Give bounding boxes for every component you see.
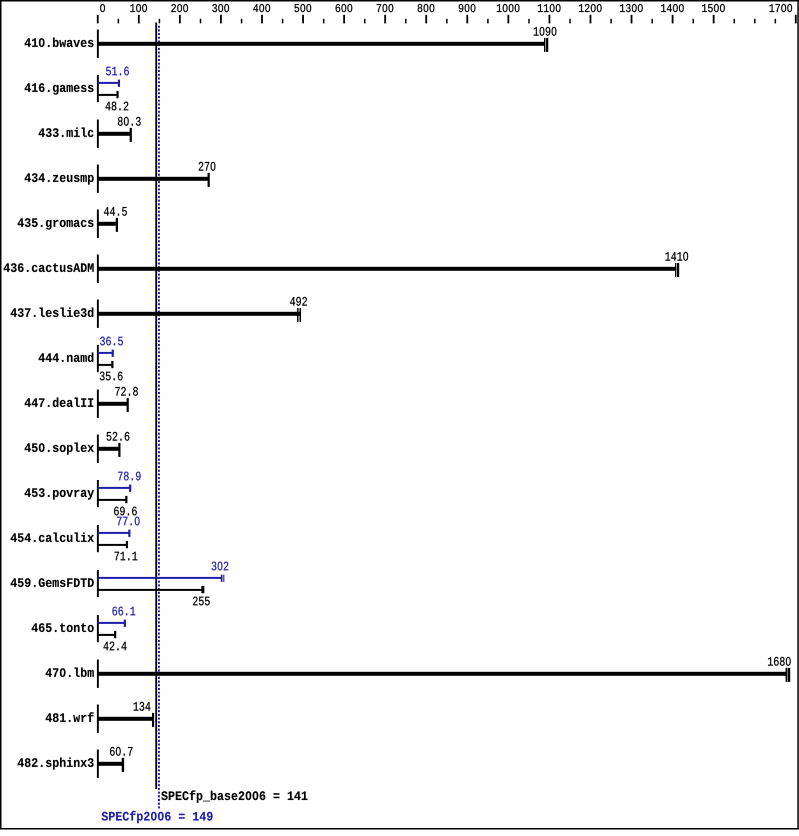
axis major tick 900 bbox=[466, 15, 468, 24]
axis minor tick 1350 bbox=[651, 19, 653, 24]
459.GemsFDTD peak run tick bbox=[223, 575, 224, 582]
benchmark label 437.leslie3d bbox=[11, 307, 94, 317]
border left bbox=[0, 0, 2, 830]
axis minor tick 1600 bbox=[754, 19, 756, 24]
416.gamess peak value 51.6 bbox=[106, 67, 129, 76]
454.calculix base end cap bbox=[126, 541, 128, 548]
axis minor tick 1650 bbox=[775, 19, 777, 24]
axis label 1700 bbox=[769, 4, 792, 12]
436.cactusADM axis baseline bbox=[97, 255, 99, 283]
axis label 1100 bbox=[538, 4, 561, 12]
axis label 1300 bbox=[620, 4, 643, 12]
row 410.bwaves bbox=[25, 37, 94, 47]
453.povray base value 69.6 bbox=[114, 507, 137, 516]
axis label 800 bbox=[418, 4, 435, 12]
axis minor tick 350 bbox=[241, 19, 243, 24]
453.povray base bar (69.6) bbox=[98, 499, 127, 501]
470.lbm run tick 1 bbox=[786, 668, 788, 682]
416.gamess base end cap bbox=[116, 91, 118, 98]
row 454.calculix bbox=[11, 532, 94, 542]
row 481.wrf bbox=[46, 712, 94, 722]
axis major tick 1100 bbox=[549, 15, 551, 24]
454.calculix peak bar (77.0) bbox=[98, 532, 130, 534]
axis minor tick 1550 bbox=[734, 19, 736, 24]
470.lbm base value 1680 bbox=[768, 657, 791, 666]
459.GemsFDTD peak value 302 bbox=[212, 562, 229, 571]
benchmark label 450.soplex bbox=[25, 442, 94, 454]
axis minor tick 250 bbox=[200, 19, 202, 24]
447.dealII bar end cap bbox=[127, 398, 129, 412]
434.zeusmp base bar (270) bbox=[98, 177, 209, 181]
435.gromacs base value 44.5 bbox=[104, 207, 127, 216]
border bottom bbox=[0, 828, 799, 830]
axis label 500 bbox=[294, 4, 311, 12]
axis major tick 500 bbox=[302, 15, 304, 24]
453.povray peak bar (78.9) bbox=[98, 487, 130, 489]
axis major tick 300 bbox=[220, 15, 222, 24]
459.GemsFDTD peak end cap bbox=[221, 575, 223, 582]
row 459.GemsFDTD bbox=[11, 578, 94, 587]
row 416.gamess bbox=[25, 83, 94, 94]
437.leslie3d base value 492 bbox=[290, 297, 307, 306]
453.povray peak value 78.9 bbox=[118, 472, 141, 481]
axis major tick 700 bbox=[384, 15, 386, 24]
444.namd peak end cap bbox=[112, 350, 114, 357]
benchmark label 447.dealII bbox=[25, 397, 94, 407]
454.calculix base value 71.1 bbox=[115, 552, 138, 561]
454.calculix axis baseline bbox=[97, 525, 99, 552]
433.milc base bar (80.3) bbox=[98, 132, 131, 136]
437.leslie3d axis baseline bbox=[97, 300, 99, 328]
base median line (141) bbox=[155, 23, 157, 790]
axis major tick 200 bbox=[179, 15, 181, 24]
axis label 200 bbox=[171, 4, 188, 12]
482.sphinx3 axis baseline bbox=[97, 750, 99, 778]
axis major tick 1700 bbox=[795, 15, 797, 24]
453.povray peak end cap bbox=[129, 485, 131, 492]
410.bwaves base bar (1090) bbox=[98, 42, 546, 46]
410.bwaves axis baseline bbox=[97, 30, 99, 58]
axis minor tick 450 bbox=[282, 19, 284, 24]
benchmark label 459.GemsFDTD bbox=[11, 578, 94, 587]
481.wrf bar end cap bbox=[152, 713, 154, 727]
axis major tick 800 bbox=[425, 15, 427, 24]
470.lbm axis baseline bbox=[97, 660, 99, 688]
416.gamess peak end cap bbox=[118, 80, 120, 87]
axis label 700 bbox=[377, 4, 394, 12]
summary SPECfp2006 = 149 bbox=[102, 811, 213, 823]
447.dealII axis baseline bbox=[97, 390, 99, 418]
row 447.dealII bbox=[25, 397, 94, 407]
465.tonto peak end cap bbox=[124, 620, 126, 627]
benchmark label 454.calculix bbox=[11, 532, 94, 542]
summary SPECfp_base2006 = 141 bbox=[161, 790, 307, 802]
433.milc base value 80.3 bbox=[118, 117, 141, 126]
axis minor tick 850 bbox=[446, 19, 448, 24]
450.soplex bar end cap bbox=[118, 443, 120, 457]
470.lbm run tick 2 bbox=[788, 668, 790, 682]
481.wrf base value 134 bbox=[134, 702, 151, 711]
416.gamess base bar (48.2) bbox=[98, 94, 118, 96]
axis minor tick 550 bbox=[323, 19, 325, 24]
axis major tick 600 bbox=[343, 15, 345, 24]
437.leslie3d run tick 1 bbox=[297, 308, 299, 322]
459.GemsFDTD peak bar (302) bbox=[98, 577, 222, 579]
benchmark label 453.povray bbox=[25, 488, 94, 499]
row 453.povray bbox=[25, 488, 94, 499]
447.dealII base bar (72.8) bbox=[98, 402, 128, 406]
row 433.milc bbox=[39, 127, 94, 137]
453.povray axis baseline bbox=[97, 480, 99, 507]
416.gamess base value 48.2 bbox=[106, 102, 129, 111]
481.wrf base bar (134) bbox=[98, 717, 153, 721]
benchmark label 482.sphinx3 bbox=[18, 757, 94, 769]
axis minor tick 950 bbox=[487, 19, 489, 24]
459.GemsFDTD base bar (255) bbox=[98, 589, 203, 591]
axis label 100 bbox=[130, 4, 147, 12]
450.soplex base value 52.6 bbox=[107, 432, 130, 441]
482.sphinx3 bar end cap bbox=[122, 758, 124, 772]
450.soplex base bar (52.6) bbox=[98, 447, 120, 451]
433.milc axis baseline bbox=[97, 120, 99, 148]
axis label 1200 bbox=[579, 4, 602, 12]
row 437.leslie3d bbox=[11, 307, 94, 317]
axis major tick 0 bbox=[97, 15, 99, 24]
row 434.zeusmp bbox=[25, 173, 94, 184]
454.calculix peak end cap bbox=[128, 530, 130, 537]
416.gamess peak bar (51.6) bbox=[98, 82, 119, 84]
row 435.gromacs bbox=[18, 218, 94, 229]
470.lbm base bar (1680) bbox=[98, 672, 788, 676]
444.namd peak value 36.5 bbox=[100, 337, 123, 346]
axis minor tick 750 bbox=[405, 19, 407, 24]
465.tonto base end cap bbox=[114, 631, 116, 638]
482.sphinx3 base bar (60.7) bbox=[98, 762, 123, 766]
410.bwaves run tick 2 bbox=[546, 38, 548, 52]
axis minor tick 1250 bbox=[610, 19, 612, 24]
row 482.sphinx3 bbox=[18, 757, 94, 769]
453.povray base end cap bbox=[125, 496, 127, 503]
434.zeusmp bar end cap bbox=[208, 173, 210, 187]
border right bbox=[797, 0, 799, 830]
benchmark label 435.gromacs bbox=[18, 218, 94, 229]
axis major tick 1000 bbox=[507, 15, 509, 24]
benchmark label 433.milc bbox=[39, 127, 94, 137]
444.namd base bar (35.6) bbox=[98, 364, 113, 366]
454.calculix base bar (71.1) bbox=[98, 544, 127, 546]
433.milc bar end cap bbox=[130, 128, 132, 142]
axis minor tick 650 bbox=[364, 19, 366, 24]
border top bbox=[0, 0, 799, 2]
benchmark label 434.zeusmp bbox=[25, 173, 94, 184]
465.tonto peak bar (66.1) bbox=[98, 622, 125, 624]
436.cactusADM base bar (1410) bbox=[98, 267, 677, 271]
465.tonto peak value 66.1 bbox=[112, 607, 135, 616]
axis minor tick 1150 bbox=[569, 19, 571, 24]
axis major tick 1500 bbox=[713, 15, 715, 24]
axis major tick 1200 bbox=[590, 15, 592, 24]
435.gromacs base bar (44.5) bbox=[98, 222, 116, 226]
axis major tick 100 bbox=[138, 15, 140, 24]
437.leslie3d base bar (492) bbox=[98, 312, 300, 316]
435.gromacs axis baseline bbox=[97, 210, 99, 238]
444.namd peak bar (36.5) bbox=[98, 352, 113, 354]
434.zeusmp axis baseline bbox=[97, 165, 99, 193]
437.leslie3d run tick 2 bbox=[300, 308, 302, 322]
416.gamess axis baseline bbox=[97, 75, 99, 102]
row 444.namd bbox=[39, 352, 94, 362]
axis label 600 bbox=[336, 4, 353, 12]
axis minor tick 1450 bbox=[692, 19, 694, 24]
axis label 0 bbox=[100, 4, 105, 12]
row 450.soplex bbox=[25, 442, 94, 454]
benchmark label 416.gamess bbox=[25, 83, 94, 94]
481.wrf axis baseline bbox=[97, 705, 99, 733]
436.cactusADM run tick 1 bbox=[675, 263, 676, 277]
peak median dotted line (149) bbox=[158, 26, 160, 809]
434.zeusmp base value 270 bbox=[199, 162, 216, 171]
axis minor tick 1050 bbox=[528, 19, 530, 24]
482.sphinx3 base value 60.7 bbox=[110, 747, 132, 756]
444.namd base end cap bbox=[111, 361, 113, 368]
435.gromacs bar end cap bbox=[116, 218, 118, 232]
465.tonto base value 42.4 bbox=[104, 642, 127, 651]
benchmark label 465.tonto bbox=[32, 623, 94, 632]
459.GemsFDTD base value 255 bbox=[193, 597, 210, 606]
444.namd base value 35.6 bbox=[100, 372, 123, 381]
447.dealII base value 72.8 bbox=[115, 387, 138, 396]
axis label 1400 bbox=[661, 4, 684, 12]
410.bwaves base value 1090 bbox=[534, 27, 557, 36]
row 470.lbm bbox=[46, 667, 94, 677]
465.tonto base bar (42.4) bbox=[98, 634, 115, 636]
454.calculix peak value 77.0 bbox=[117, 517, 140, 526]
axis label 1000 bbox=[497, 4, 520, 12]
410.bwaves run tick 1 bbox=[544, 38, 545, 52]
axis major tick 1300 bbox=[631, 15, 633, 24]
436.cactusADM base value 1410 bbox=[665, 252, 688, 261]
row 436.cactusADM bbox=[4, 263, 94, 272]
axis minor tick 150 bbox=[159, 19, 161, 24]
axis label 1500 bbox=[702, 4, 725, 12]
459.GemsFDTD base end cap bbox=[201, 586, 204, 593]
benchmark label 436.cactusADM bbox=[4, 263, 94, 272]
axis label 900 bbox=[459, 4, 476, 12]
benchmark label 444.namd bbox=[39, 352, 94, 362]
465.tonto axis baseline bbox=[97, 615, 99, 642]
benchmark label 470.lbm bbox=[46, 667, 94, 677]
axis major tick 1400 bbox=[672, 15, 674, 24]
axis minor tick 50 bbox=[118, 19, 120, 24]
436.cactusADM run tick 2 bbox=[677, 263, 679, 277]
row 465.tonto bbox=[32, 623, 94, 632]
benchmark label 410.bwaves bbox=[25, 37, 94, 47]
459.GemsFDTD axis baseline bbox=[97, 570, 99, 597]
axis major tick 400 bbox=[261, 15, 263, 24]
444.namd axis baseline bbox=[97, 345, 99, 372]
450.soplex axis baseline bbox=[97, 435, 99, 463]
axis label 300 bbox=[212, 4, 229, 12]
benchmark label 481.wrf bbox=[46, 712, 94, 722]
axis label 400 bbox=[253, 4, 270, 12]
